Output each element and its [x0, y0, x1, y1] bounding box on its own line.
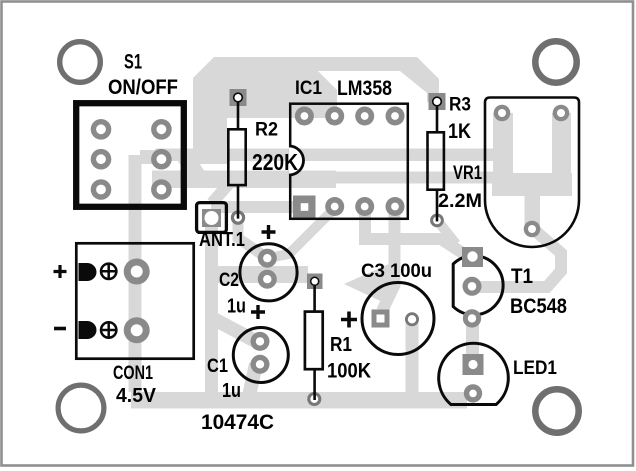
wire trace: VR1 center stub — [525, 190, 541, 229]
IC1 pin 7 pad — [325, 107, 344, 126]
wire trace: horizontal band 2 left (S1 to IC) — [152, 171, 336, 189]
transistor T1 bottom pad — [463, 309, 481, 327]
resistor R1 bottom pad ring — [309, 394, 320, 405]
wire trace: C3 ring pad down to bottom band — [406, 319, 419, 394]
resistor R1 body — [305, 312, 323, 370]
svg-text:C2: C2 — [219, 270, 239, 291]
capacitor C2 plus sign — [262, 225, 276, 239]
IC U1 pin 1 square pad — [293, 196, 316, 218]
wire trace: VR1 bottom pad to T1 middle pad — [478, 228, 561, 287]
wire trace: IC pin4 to C3 — [382, 209, 395, 311]
switch S1 pad 5 — [91, 179, 112, 200]
capacitor C1 outline — [233, 328, 288, 383]
svg-text:LM358: LM358 — [337, 77, 392, 100]
capacitor C3 square pad — [372, 310, 390, 328]
wire trace: bottom horizontal band — [131, 392, 467, 409]
capacitor C2 negative pad — [258, 270, 277, 289]
IC1 pin 2 pad — [325, 197, 344, 216]
wire trace: ANT vertical to C1 diagonal — [212, 318, 257, 342]
IC U1 pin1 notch — [289, 146, 304, 175]
IC1 pin 4 pad — [386, 197, 405, 216]
wire trace: ANT to R1 pad band through C2 — [214, 266, 308, 283]
switch S1 pad 6 — [151, 179, 172, 200]
wire trace: IC pin2 to C2 diagonal — [268, 209, 334, 258]
svg-text:ANT.1: ANT.1 — [199, 229, 245, 251]
wire trace: VR1 bar — [492, 173, 572, 196]
wire trace: R2 pad to IC pin1 — [211, 201, 304, 213]
wire trace: IC pin3 to T1 — [365, 209, 464, 254]
switch S1 pad 4 — [151, 149, 172, 170]
potentiometer VR1 outline — [485, 98, 579, 248]
wire trace: wedge left of C3 — [344, 263, 391, 306]
connector CON1 positive wedge — [79, 263, 97, 281]
svg-text:100K: 100K — [327, 360, 371, 383]
capacitor C3 outline — [362, 283, 434, 355]
capacitor C1 plus sign — [251, 305, 265, 319]
label CON1 minus — [54, 327, 66, 331]
mounting hole top-right — [535, 41, 576, 82]
mounting hole bottom-right — [535, 389, 578, 432]
connector CON1 negative pad — [124, 317, 150, 343]
mounting hole bottom-left — [58, 385, 104, 431]
transistor T1 middle pad — [463, 277, 482, 296]
transistor T1 outline — [453, 256, 503, 315]
switch S1 pad 3 — [91, 149, 112, 170]
wire trace: band2 to ANT.1 diagonal — [212, 180, 232, 203]
resistor R1 wires — [313, 285, 316, 400]
resistor R3 body — [428, 132, 444, 189]
wire trace: VR1 right leg — [552, 113, 571, 196]
capacitor C3 ring pad — [406, 314, 417, 325]
wire trace: C1 to bottom band stub — [249, 364, 256, 396]
svg-text:IC1: IC1 — [295, 78, 322, 99]
svg-text:4.5V: 4.5V — [116, 385, 157, 407]
svg-text:T1: T1 — [511, 265, 533, 288]
resistor R3 wires — [436, 105, 439, 221]
svg-text:S1: S1 — [124, 51, 142, 74]
resistor R3 top pad — [429, 93, 446, 110]
IC1 pin 5 pad — [386, 107, 405, 126]
svg-text:R1: R1 — [330, 334, 352, 356]
svg-text:C1: C1 — [207, 356, 228, 377]
svg-text:LED1: LED1 — [513, 358, 557, 379]
mounting hole top-left — [60, 42, 101, 83]
IC1 pin 3 pad — [355, 197, 374, 216]
svg-text:100u: 100u — [390, 261, 432, 282]
svg-text:1u: 1u — [227, 296, 246, 318]
wire trace: T1 bottom pad to LED1 — [466, 316, 479, 360]
connector CON1 negative screw symbol — [100, 322, 117, 339]
wire trace: R2 pad down to C2 — [238, 216, 264, 256]
connector CON1 negative wedge — [79, 321, 97, 339]
capacitor C3 plus sign — [341, 312, 357, 328]
potentiometer VR1 pad 1 — [494, 105, 511, 122]
resistor R2 body — [228, 129, 245, 185]
wire trace: diagonal joining band1 to band2 — [176, 158, 214, 186]
svg-text:1u: 1u — [222, 380, 241, 402]
svg-text:CON1: CON1 — [113, 363, 153, 384]
antenna pad ANT.1 outline — [197, 203, 227, 233]
svg-text:R2: R2 — [255, 120, 278, 141]
resistor R2 wires — [237, 101, 240, 219]
resistor R1 top pad — [307, 274, 323, 290]
LED1 square pad — [463, 354, 484, 375]
resistor R2 top pad — [230, 89, 247, 106]
IC U1 outline LM358 — [290, 104, 408, 219]
resistor R2 bottom pad ring — [232, 212, 243, 223]
labels layer — [54, 51, 568, 435]
svg-text:VR1: VR1 — [453, 163, 482, 184]
potentiometer VR1 pad 2 wiper — [524, 221, 541, 238]
wire trace: horizontal band 1 (S1 to VR1 left pad) — [155, 149, 503, 162]
label CON1 plus — [54, 265, 67, 278]
svg-text:C3: C3 — [361, 261, 385, 282]
switch S1 pad 1 — [91, 119, 112, 140]
transistor T1 top square pad — [462, 247, 483, 267]
svg-text:2.2M: 2.2M — [438, 191, 482, 212]
antenna pad ANT.1 pad — [202, 209, 221, 227]
wire trace: VR1 left leg — [493, 113, 513, 196]
wire trace: top arch from R2 pad to R3 pad — [214, 57, 439, 118]
capacitor C2 outline — [240, 244, 297, 301]
potentiometer VR1 pad 3 — [553, 105, 570, 122]
IC1 pin 8 pad — [295, 107, 314, 126]
switch S1 outline — [76, 103, 184, 207]
LED1 outline — [439, 343, 509, 404]
connector CON1 positive pad — [124, 259, 150, 285]
wire trace: ANT.1 vertical — [205, 227, 218, 398]
svg-text:ON/OFF: ON/OFF — [108, 76, 178, 99]
wire trace: horizontal band 2 right (IC to VR1 bar) — [330, 172, 512, 184]
LED1 bottom pad — [464, 384, 482, 402]
connector CON1 outline — [76, 243, 193, 358]
capacitor C1 positive pad — [251, 332, 270, 351]
resistor R3 bottom pad ring — [432, 215, 443, 226]
capacitor C1 negative pad — [251, 355, 270, 374]
IC1 pin 6 pad — [355, 107, 374, 126]
capacitor C2 positive pad — [258, 249, 277, 268]
svg-text:1K: 1K — [448, 120, 471, 143]
svg-text:220K: 220K — [252, 149, 298, 175]
wire trace: S1 middle-right pad stub — [140, 150, 163, 164]
switch S1 pad 2 — [151, 119, 172, 140]
svg-text:BC548: BC548 — [510, 295, 567, 318]
svg-text:10474C: 10474C — [201, 411, 274, 434]
wire trace: R3 bottom pad to T1 diagonal — [437, 220, 456, 244]
wire trace: arch left block beside R2 — [193, 57, 227, 164]
connector CON1 positive screw symbol — [100, 263, 117, 280]
svg-text:R3: R3 — [449, 95, 471, 116]
wire trace: S1 to CON1 vertical — [129, 155, 142, 392]
